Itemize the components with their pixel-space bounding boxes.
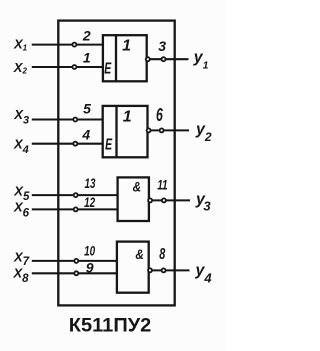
svg-text:X3: X3 (13, 107, 29, 127)
svg-text:10: 10 (84, 243, 95, 259)
svg-text:X4: X4 (13, 137, 29, 157)
svg-text:у2: у2 (195, 121, 212, 144)
svg-text:1: 1 (122, 38, 131, 55)
svg-text:8: 8 (159, 246, 165, 263)
svg-text:6: 6 (156, 105, 163, 125)
svg-text:К511ПУ2: К511ПУ2 (69, 315, 152, 337)
svg-text:11: 11 (157, 177, 168, 193)
svg-text:13: 13 (85, 175, 96, 191)
svg-text:у4: у4 (195, 262, 213, 286)
svg-text:4: 4 (81, 127, 90, 143)
svg-text:E: E (105, 136, 112, 153)
svg-text:&: & (135, 246, 144, 262)
svg-text:X1: X1 (13, 37, 28, 53)
svg-text:9: 9 (86, 259, 94, 275)
svg-text:12: 12 (84, 194, 95, 210)
svg-text:5: 5 (83, 101, 91, 117)
svg-text:X2: X2 (13, 60, 28, 76)
svg-text:2: 2 (82, 27, 91, 43)
svg-text:у3: у3 (195, 191, 211, 214)
svg-text:1: 1 (123, 108, 132, 125)
svg-text:X8: X8 (13, 265, 30, 285)
svg-text:3: 3 (158, 38, 166, 54)
svg-text:у1: у1 (193, 49, 209, 71)
svg-text:E: E (104, 60, 111, 77)
svg-text:&: & (133, 179, 142, 195)
svg-text:1: 1 (83, 49, 91, 65)
